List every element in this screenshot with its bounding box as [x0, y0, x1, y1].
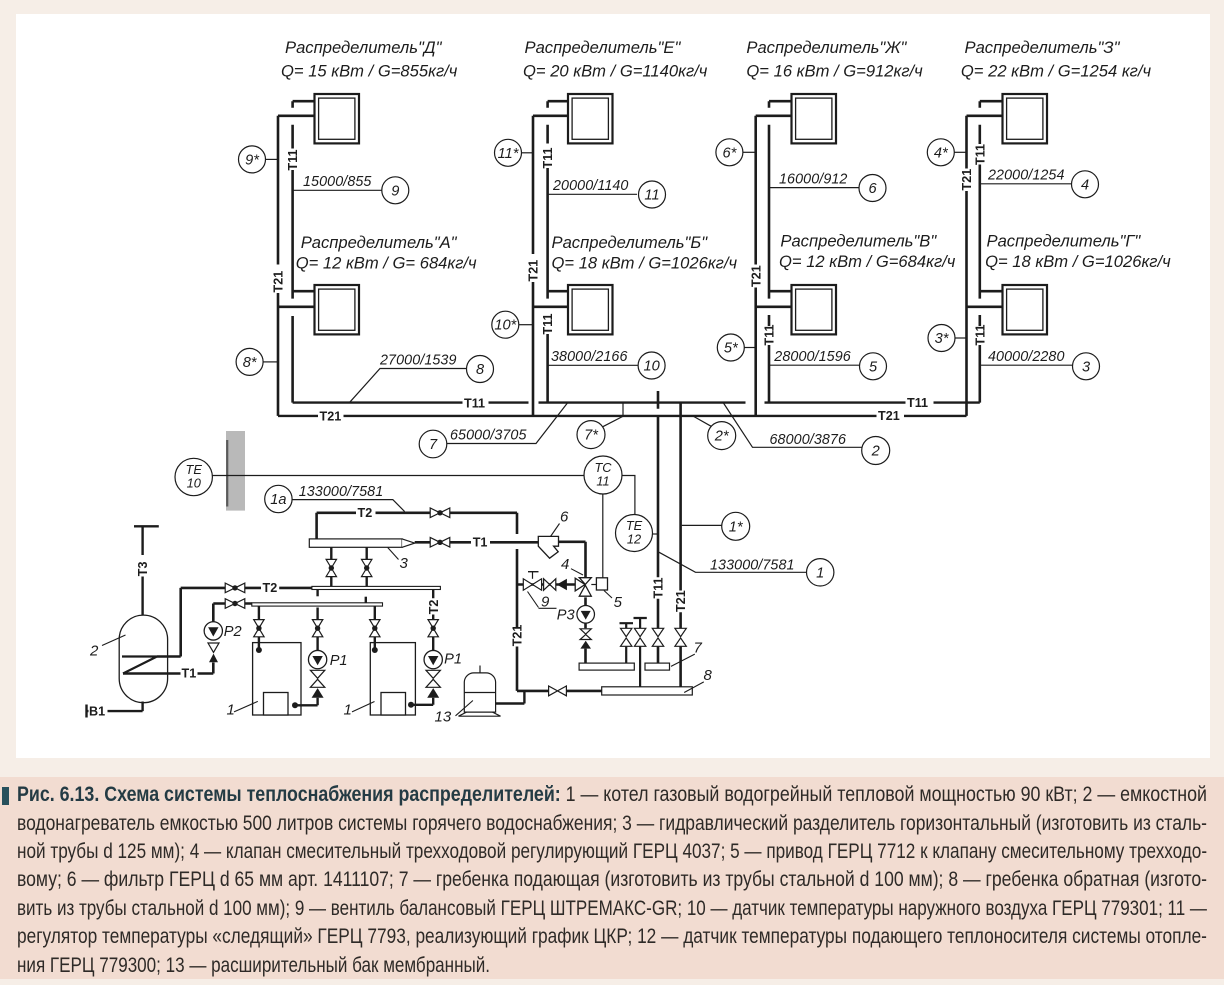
pipe T11 riser column 2 [548, 101, 568, 402]
svg-text:Т21: Т21 [511, 625, 525, 647]
svg-text:Распределитель"В": Распределитель"В" [780, 232, 937, 251]
label T11 lower column 3 [763, 324, 777, 345]
svg-text:1: 1 [227, 702, 235, 719]
pump P3 [577, 606, 595, 624]
label 1 boiler2 [344, 702, 375, 719]
sensor line TE12-T11 [652, 533, 658, 535]
distributor box Е [568, 94, 613, 143]
sensor line TE10-TC11 [212, 475, 584, 477]
label T2 boiler2 [427, 600, 441, 615]
wall hatch [226, 431, 245, 511]
svg-text:8: 8 [476, 362, 485, 378]
valve spare riser 2 [634, 628, 645, 646]
tag circle 2* [693, 416, 736, 450]
pipe expansion tank [496, 691, 525, 704]
pipe mixing branch [517, 583, 575, 586]
svg-text:Т11: Т11 [464, 397, 485, 411]
sensor TE 12 [616, 515, 653, 552]
pipe T21 main riser [517, 513, 602, 691]
separator riser right [366, 547, 368, 586]
hydraulic separator 3 [309, 539, 414, 547]
label 13 [435, 701, 473, 726]
tag circle 3 [1073, 353, 1100, 380]
branch line 27000/1539 [350, 352, 467, 402]
svg-text:Распределитель"Ж": Распределитель"Ж" [746, 38, 907, 57]
svg-text:6: 6 [560, 509, 569, 526]
label T11 upper column 1 [286, 149, 300, 170]
svg-text:Т1: Т1 [182, 667, 197, 681]
svg-text:Q= 15 кВт / G=855кг/ч: Q= 15 кВт / G=855кг/ч [281, 62, 458, 81]
tag circle 8* [236, 348, 278, 375]
tag circle 9* [239, 146, 279, 173]
valve on T11 drop [652, 628, 663, 646]
svg-text:16000/912: 16000/912 [779, 171, 847, 187]
svg-text:6*: 6* [723, 145, 738, 161]
svg-text:15000/855: 15000/855 [303, 174, 371, 190]
svg-text:Р3: Р3 [557, 608, 575, 624]
label T11 upper column 4 [973, 144, 987, 165]
label 1 boiler1 [227, 701, 258, 718]
supply manifold bar [312, 586, 441, 589]
svg-text:8: 8 [704, 667, 713, 684]
svg-text:Q= 20 кВт / G=1140кг/ч: Q= 20 кВт / G=1140кг/ч [523, 62, 708, 81]
pipe T11 riser column 4 [980, 101, 1003, 402]
svg-text:13: 13 [435, 709, 452, 726]
svg-text:Q= 12 кВт / G=684кг/ч: Q= 12 кВт / G=684кг/ч [779, 252, 956, 271]
svg-text:Распределитель"Е": Распределитель"Е" [525, 38, 682, 57]
svg-text:Т21: Т21 [674, 590, 688, 612]
svg-text:1*: 1* [729, 519, 744, 535]
svg-text:Распределитель"Б": Распределитель"Б" [552, 233, 709, 252]
svg-text:11: 11 [644, 188, 659, 204]
branch line 22000/1254 [980, 168, 1071, 184]
label 7 [671, 640, 703, 667]
stub bar1 down [316, 590, 318, 597]
valve below P3 [580, 629, 591, 649]
valve on T2 line [430, 508, 450, 518]
svg-text:Т21: Т21 [749, 265, 763, 287]
svg-text:5: 5 [869, 359, 878, 375]
pipe to pump P3 [584, 597, 587, 663]
branch line 38000/2166 [548, 349, 638, 365]
pipe T1 line [415, 542, 586, 578]
svg-text:133000/7581: 133000/7581 [299, 484, 384, 500]
svg-text:9: 9 [391, 183, 399, 199]
svg-text:Т11: Т11 [652, 577, 666, 598]
tag circle 6 [859, 175, 886, 202]
svg-text:10*: 10* [494, 318, 517, 334]
svg-text:2: 2 [871, 444, 880, 460]
node boiler1 inlet [256, 647, 262, 653]
label 6 [551, 509, 570, 537]
svg-text:8*: 8* [243, 355, 258, 371]
svg-text:4: 4 [1081, 177, 1089, 193]
svg-text:Q= 18 кВт / G=1026кг/ч: Q= 18 кВт / G=1026кг/ч [552, 254, 738, 273]
svg-text:40000/2280: 40000/2280 [988, 349, 1065, 365]
valve on T1 line [430, 538, 450, 548]
svg-text:38000/2166: 38000/2166 [551, 349, 628, 365]
svg-text:Распределитель"А": Распределитель"А" [301, 233, 458, 252]
svg-text:Т21: Т21 [272, 271, 286, 293]
tag circle 8 [467, 356, 494, 383]
tag circle 7* [577, 403, 623, 449]
pump P2 [204, 622, 222, 640]
label 4 [561, 556, 583, 575]
svg-text:28000/1596: 28000/1596 [773, 349, 851, 365]
svg-text:3: 3 [400, 555, 409, 572]
svg-text:5*: 5* [724, 341, 739, 357]
label T11 lower column 2 [541, 313, 555, 334]
stub bar2 up [365, 597, 367, 603]
label T11 drop [652, 577, 666, 598]
svg-text:В1: В1 [89, 704, 105, 718]
balance valve 9 [523, 572, 541, 591]
pipe T11 riser column 3 [769, 101, 792, 402]
return manifold bar [252, 603, 383, 606]
tag circle 1 [807, 559, 834, 586]
valve heater supply [225, 583, 245, 593]
pipe T21 header [278, 415, 967, 417]
pipe T21 trunk column 4 [967, 116, 1003, 416]
valve boiler2 inlet [370, 620, 380, 637]
label T11 upper column 2 [541, 147, 555, 168]
distributor box В [792, 285, 837, 334]
svg-text:65000/3705: 65000/3705 [450, 428, 527, 444]
svg-text:11: 11 [596, 474, 609, 489]
label T21 column 2 [527, 260, 541, 282]
svg-text:Т2: Т2 [358, 506, 373, 520]
pipe P2 branch [213, 604, 252, 674]
label T21 column 1 [272, 271, 286, 293]
check valve below P2 [208, 643, 219, 662]
svg-text:Р2: Р2 [224, 624, 242, 640]
tag circle 2 [862, 437, 890, 465]
pipe T11 riser column 1 [293, 101, 315, 402]
tag circle 6* [716, 139, 756, 166]
boiler1 inlet branch [258, 606, 260, 650]
pipe heater supply riser [157, 588, 312, 657]
svg-text:2*: 2* [714, 429, 730, 445]
svg-text:Т21: Т21 [320, 409, 342, 423]
svg-text:3*: 3* [935, 331, 950, 347]
svg-text:Т3: Т3 [136, 561, 150, 576]
actuator 5 [591, 578, 607, 590]
valve on T21 drop [675, 628, 686, 646]
svg-text:3: 3 [1082, 359, 1090, 375]
pipe T2 supply line [317, 513, 517, 539]
check valve boiler2 [426, 670, 440, 697]
tag circle 3* [928, 325, 967, 352]
svg-text:11*: 11* [498, 146, 520, 162]
svg-text:Т11: Т11 [973, 144, 987, 165]
pump P1 boiler1 [308, 650, 326, 668]
svg-text:10: 10 [643, 359, 659, 375]
branch line 65000/3705 [447, 403, 568, 444]
pipe T21 trunk column 2 [533, 116, 568, 416]
svg-text:27000/1539: 27000/1539 [379, 352, 457, 368]
label 9 [528, 592, 557, 611]
node boiler2 outlet [408, 702, 414, 708]
tag circle 9 [382, 177, 409, 204]
boiler 1 [253, 643, 301, 715]
pipe T11 drop [657, 391, 660, 664]
spare riser 2 [634, 618, 647, 687]
pipe T3 [134, 526, 159, 615]
label T21 drop [674, 590, 688, 612]
branch line 15000/855 [293, 174, 382, 190]
svg-text:1а: 1а [270, 492, 286, 508]
svg-text:7: 7 [694, 640, 703, 657]
branch line 40000/2280 [980, 349, 1072, 365]
svg-text:133000/7581: 133000/7581 [710, 558, 795, 574]
svg-text:Т11: Т11 [907, 396, 928, 410]
svg-text:Т2: Т2 [263, 581, 278, 595]
valve boiler return left [225, 599, 245, 609]
label 8 [684, 667, 712, 693]
tag circle 1a [265, 485, 292, 512]
svg-text:9: 9 [541, 594, 550, 611]
tag circle 7 [419, 430, 447, 458]
three-way valve 4 [575, 578, 591, 597]
valve separator riser right [362, 559, 372, 576]
svg-text:Распределитель"Г": Распределитель"Г" [987, 232, 1142, 251]
boiler1 pump column [297, 608, 318, 706]
tag circle 11 [639, 181, 666, 208]
label T21 main [511, 625, 525, 647]
branch line 16000/912 [769, 171, 859, 187]
branch line 133000/7581 lower [659, 552, 807, 573]
svg-text:Т11: Т11 [286, 149, 300, 170]
valve boiler1 pump column [312, 620, 322, 637]
valve spare riser 1 [621, 628, 632, 646]
svg-text:1: 1 [816, 565, 824, 581]
distributor box Д [315, 94, 360, 143]
check valve pair [544, 579, 567, 590]
distributor box З [1003, 94, 1048, 143]
label T11 lower column 4 [973, 324, 987, 345]
svg-text:4: 4 [561, 556, 569, 573]
tag circle 10 [638, 352, 665, 379]
svg-text:1: 1 [344, 702, 352, 719]
tag circle 5* [717, 334, 755, 361]
tag circle 10* [492, 311, 533, 338]
svg-text:Распределитель"З": Распределитель"З" [965, 38, 1121, 57]
svg-text:Р1: Р1 [444, 652, 462, 668]
svg-text:Т11: Т11 [541, 147, 555, 168]
svg-text:Т11: Т11 [763, 324, 777, 345]
label T21 column 3 [749, 265, 763, 287]
pipe T11 header [293, 401, 980, 403]
filter 6 [538, 536, 558, 558]
svg-text:20000/1140: 20000/1140 [552, 178, 628, 194]
svg-text:Q= 22 кВт / G=1254 кг/ч: Q= 22 кВт / G=1254 кг/ч [961, 62, 1152, 81]
svg-text:Т21: Т21 [527, 260, 541, 282]
tag circle 1* [682, 512, 750, 540]
boiler 2 [370, 643, 415, 715]
svg-text:Q= 18 кВт / G=1026кг/ч: Q= 18 кВт / G=1026кг/ч [985, 252, 1171, 271]
sensor line TC11-TE12 [622, 476, 635, 515]
node boiler2 inlet [372, 647, 378, 653]
label T3 [136, 561, 150, 576]
pump P1 boiler2 [424, 650, 442, 668]
svg-text:Р1: Р1 [330, 653, 348, 669]
boiler2 inlet branch [374, 606, 376, 650]
supply manifold 7 [579, 663, 669, 670]
branch line 133000/7581 upper [292, 484, 405, 511]
valve boiler1 inlet [254, 620, 264, 637]
svg-text:Т21: Т21 [960, 169, 974, 191]
expansion tank 13 [459, 666, 501, 717]
distributor box Г [1003, 285, 1048, 334]
svg-text:12: 12 [627, 532, 641, 547]
tag circle 4 [1072, 171, 1099, 198]
separator riser left [330, 547, 332, 586]
node boiler1 outlet [292, 702, 298, 708]
svg-text:Т1: Т1 [473, 535, 488, 549]
distributor box Ж [792, 94, 837, 143]
pipe T21 trunk column 3 [756, 116, 792, 416]
pipe B1 [87, 702, 143, 718]
distributor box А [315, 285, 360, 334]
svg-text:4*: 4* [934, 145, 949, 161]
pipe T1 heater return [123, 672, 213, 675]
valve separator riser left [326, 559, 336, 576]
control line TC11-actuator [602, 494, 604, 578]
spare riser 1 [620, 623, 634, 663]
svg-text:7: 7 [429, 437, 438, 453]
svg-text:9*: 9* [245, 152, 260, 168]
distributor box Б [568, 285, 613, 334]
caption bullet [2, 787, 9, 805]
sensor TE 10 [175, 458, 212, 495]
branch line 68000/3876 [723, 402, 862, 448]
label T21 column 4 [960, 169, 974, 191]
check valve boiler1 [310, 670, 324, 697]
water heater tank 2 [119, 615, 167, 703]
svg-text:22000/1254: 22000/1254 [987, 168, 1065, 184]
branch line 28000/1596 [769, 349, 859, 365]
svg-text:6: 6 [868, 181, 877, 197]
svg-text:Распределитель"Д": Распределитель"Д" [285, 38, 443, 57]
svg-text:Т11: Т11 [541, 313, 555, 334]
pipe T21 trunk column 1 [278, 116, 315, 416]
svg-text:Т2: Т2 [427, 600, 441, 615]
tag circle 5 [860, 353, 887, 380]
tag circle 4* [927, 139, 966, 166]
heater coil [122, 657, 157, 674]
svg-text:Т21: Т21 [878, 409, 900, 423]
svg-text:5: 5 [614, 594, 623, 611]
boiler2 pump column [413, 590, 433, 705]
label 2 [89, 635, 126, 660]
valve return line [549, 686, 567, 696]
svg-text:Q= 12 кВт / G= 684кг/ч: Q= 12 кВт / G= 684кг/ч [296, 254, 477, 273]
return manifold 8 [602, 687, 693, 695]
svg-text:Q= 16 кВт / G=912кг/ч: Q= 16 кВт / G=912кг/ч [746, 62, 923, 81]
svg-text:10: 10 [187, 476, 202, 491]
svg-text:7*: 7* [584, 428, 599, 444]
label 3 [388, 548, 409, 573]
svg-text:2: 2 [89, 643, 99, 660]
label 5 [604, 591, 623, 612]
svg-text:68000/3876: 68000/3876 [770, 432, 847, 448]
valve boiler2 pump column [428, 620, 438, 637]
svg-text:Т11: Т11 [973, 324, 987, 345]
pipe T21 drop [679, 402, 682, 687]
controller TC 11 [584, 456, 622, 494]
branch line 20000/1140 [548, 178, 637, 194]
tag circle 11* [495, 139, 534, 166]
